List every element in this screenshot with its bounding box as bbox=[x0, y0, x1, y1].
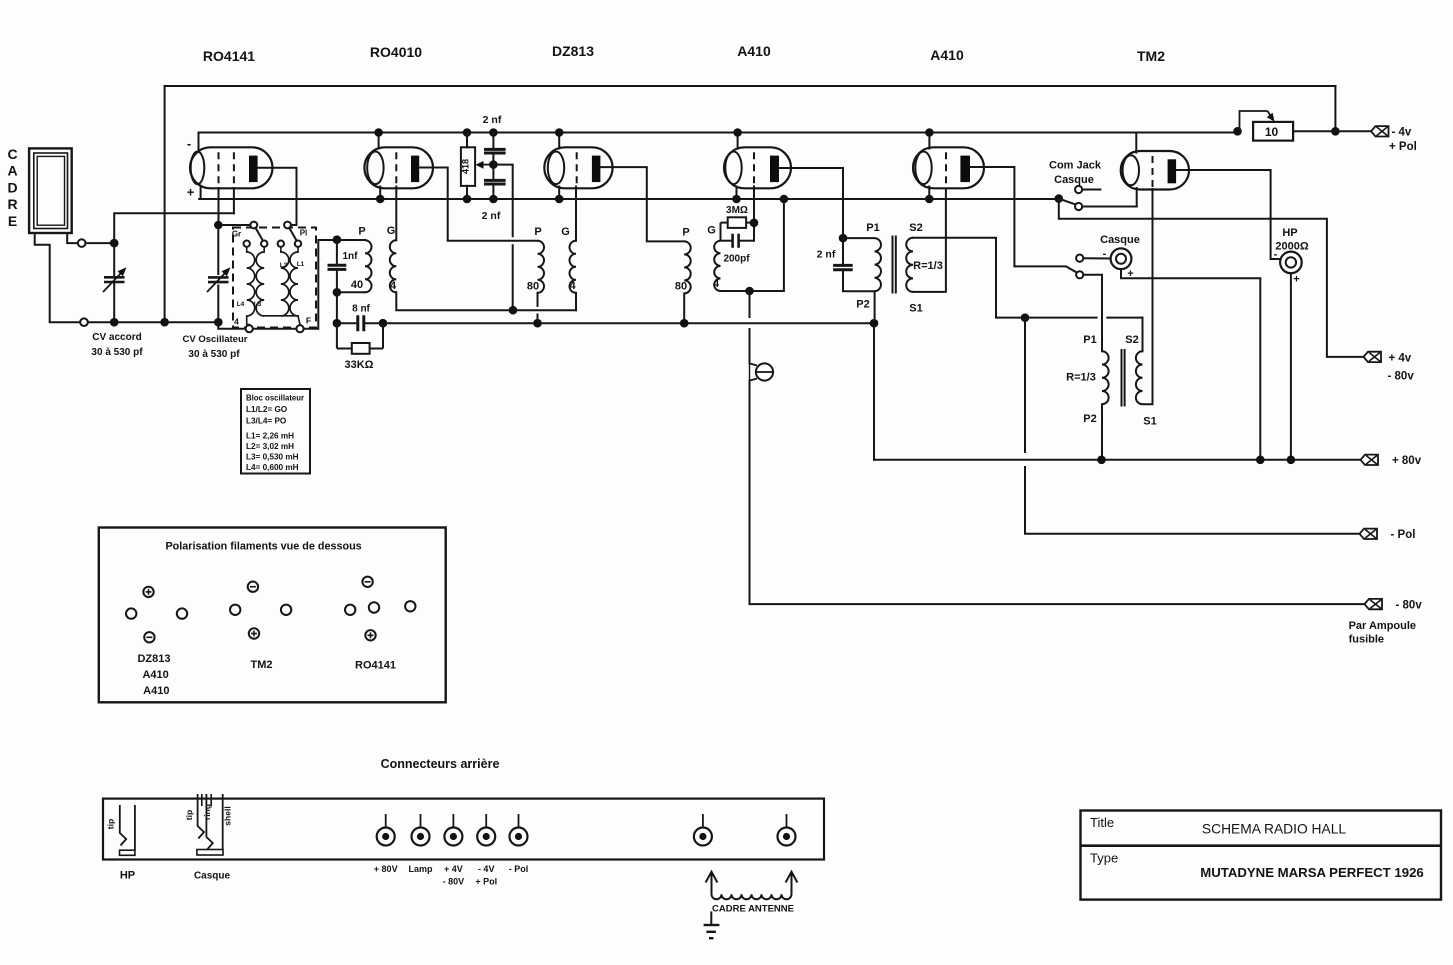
socket Lamp bbox=[412, 814, 430, 846]
coil tap contact L3 bbox=[261, 241, 267, 247]
svg-text:Title: Title bbox=[1090, 815, 1114, 830]
wire: com jack lower contact to TM2 filament bbox=[1082, 206, 1137, 208]
tube A410 second: filament bbox=[915, 152, 931, 185]
capacitor 2nf upper bbox=[484, 149, 506, 153]
label T3 value 80 bbox=[675, 281, 687, 293]
tube A410 second: grid 1 bbox=[945, 152, 947, 186]
svg-text:SCHEMA RADIO HALL: SCHEMA RADIO HALL bbox=[1202, 822, 1346, 837]
label socket Lamp bbox=[408, 864, 433, 874]
label 2nf upper bbox=[483, 114, 502, 126]
tube RO4010: anode bbox=[411, 156, 419, 183]
switch blade Pl to L1 tap bbox=[289, 228, 296, 241]
junction: T3 G bottom branch to fuse lamp bbox=[745, 287, 754, 296]
label osc terminal 4 bbox=[234, 317, 239, 327]
inductor L4 bbox=[247, 252, 255, 316]
svg-text:L1= 2,26 mH: L1= 2,26 mH bbox=[246, 432, 294, 441]
label CV accord bbox=[91, 332, 143, 358]
capacitor 200pf grid bbox=[721, 223, 755, 248]
label casque plus bbox=[1127, 268, 1133, 280]
junction: DZ813 bottom on filament+ bus bbox=[555, 195, 564, 204]
wire: com jack upper contact stub bbox=[1082, 189, 1100, 191]
triode/tube TM2: envelope bbox=[1121, 151, 1189, 190]
wire: T4 S2 to casque jack line bbox=[913, 238, 1097, 318]
wire: 418 bottom lead bbox=[466, 186, 468, 199]
svg-text:30 à 530 pf: 30 à 530 pf bbox=[91, 347, 143, 358]
label -Pol bbox=[1391, 529, 1416, 541]
svg-text:Bloc oscillateur: Bloc oscillateur bbox=[246, 394, 304, 403]
junction: A410-2 top on filament- bus bbox=[925, 128, 934, 137]
wire: DZ813 filament+ lead bbox=[558, 187, 560, 200]
svg-text:Casque: Casque bbox=[1100, 234, 1140, 246]
svg-text:R=1/3: R=1/3 bbox=[1066, 372, 1096, 384]
tube DZ813: filament bbox=[548, 152, 564, 185]
wire: T5 P2 to +80v rail bbox=[1101, 404, 1103, 460]
tube A410 first: filament bbox=[725, 152, 741, 185]
label HP plus bbox=[1293, 274, 1299, 286]
label -4v bbox=[1392, 127, 1412, 139]
junction: T2 primary on HT bus bbox=[533, 319, 542, 328]
svg-text:4: 4 bbox=[713, 278, 720, 290]
label L1 bbox=[297, 261, 305, 268]
svg-text:418: 418 bbox=[460, 159, 470, 174]
svg-text:30 à 530 pf: 30 à 530 pf bbox=[188, 349, 240, 360]
junction: 2nf top on filament- bus bbox=[489, 128, 498, 137]
connector: cadre terminal upper bbox=[78, 239, 86, 247]
svg-text:A410: A410 bbox=[142, 669, 168, 681]
resistor 418 bbox=[460, 147, 475, 186]
triode/tube DZ813: envelope bbox=[544, 147, 612, 188]
svg-text:- 80V: - 80V bbox=[443, 877, 465, 887]
triode/tube RO4141: envelope bbox=[190, 147, 273, 188]
label T5 S2 bbox=[1125, 334, 1138, 346]
wire: lamp branch upper bbox=[749, 291, 751, 317]
cadre antenne sketch bbox=[706, 872, 798, 900]
label T1 value 4 bbox=[390, 280, 397, 292]
label T4 S1 bbox=[909, 303, 922, 315]
svg-text:F: F bbox=[306, 316, 311, 326]
svg-text:-: - bbox=[1274, 249, 1278, 261]
wire: -Pol drop upper bbox=[1024, 318, 1026, 452]
wire: +80v rail bbox=[874, 459, 1360, 461]
wire: L4 stem bbox=[246, 247, 248, 252]
label tube V2 RO4010 bbox=[370, 44, 422, 60]
label 200pf bbox=[723, 254, 750, 265]
wire: TM2 filament- lead bbox=[1135, 133, 1137, 153]
label +Pol bbox=[1389, 141, 1417, 153]
wire: L1 to terminal F bbox=[298, 316, 300, 325]
coil tap contact L2 bbox=[278, 241, 284, 247]
socket +80V bbox=[377, 814, 395, 846]
junction: CV accord top node bbox=[110, 239, 119, 248]
transformer T5 core bbox=[1122, 349, 1125, 407]
svg-text:Casque: Casque bbox=[194, 871, 231, 882]
tube DZ813: grid 1 bbox=[576, 152, 578, 186]
wire: RO4141 filament+ lead bbox=[200, 187, 202, 200]
transformer T3 primary winding P bbox=[684, 241, 691, 293]
svg-text:D: D bbox=[7, 179, 17, 195]
label Type bbox=[1090, 851, 1118, 866]
label RO4141 plus bbox=[187, 185, 195, 200]
label CV oscillateur bbox=[183, 334, 248, 360]
junction: T4 primary top node bbox=[839, 234, 848, 243]
wire: HT bus down to +80v rail bbox=[873, 323, 875, 460]
tube RO4010: grid 1 bbox=[395, 152, 397, 186]
junction: resistor 418 bottom on filament+ bus bbox=[463, 195, 472, 204]
wire: T5 S1 to TM2 grid bbox=[1143, 189, 1153, 404]
label T3 value 4 bbox=[713, 278, 720, 290]
wire: -80v line bbox=[750, 381, 1365, 604]
label HP 2000 ohm bbox=[1275, 241, 1308, 253]
wire: rheostat output bbox=[1293, 130, 1335, 132]
junction: 8nf right node on HT bus bbox=[379, 319, 388, 328]
label T5 ratio bbox=[1066, 372, 1096, 384]
wire: T1 G bottom to grid-return bus bbox=[396, 292, 576, 310]
svg-text:S1: S1 bbox=[909, 303, 922, 315]
label 1nf bbox=[343, 251, 359, 262]
junction: filament+ bus at Com Jack bbox=[1055, 194, 1064, 203]
junction: grid leak node bbox=[750, 219, 759, 228]
svg-text:CADRE ANTENNE: CADRE ANTENNE bbox=[712, 904, 794, 915]
wire: node down to 8nf node bbox=[336, 292, 338, 323]
label Title bbox=[1090, 815, 1114, 830]
svg-text:DZ813: DZ813 bbox=[552, 43, 594, 59]
label L4 bbox=[237, 301, 245, 308]
svg-text:4: 4 bbox=[234, 317, 239, 327]
tube DZ813: anode bbox=[592, 156, 601, 183]
svg-text:1nf: 1nf bbox=[343, 251, 359, 262]
junction: grid-return node bbox=[509, 306, 518, 315]
wire: filament+ tie at RO4141 bbox=[199, 198, 234, 200]
svg-text:E: E bbox=[8, 213, 17, 229]
rear panel outline bbox=[103, 799, 824, 860]
wire: lamp branch crossing HT bus bbox=[749, 329, 751, 363]
svg-text:+ 4V: + 4V bbox=[444, 864, 463, 874]
svg-text:40: 40 bbox=[351, 279, 363, 291]
wire: CV oscillateur branch bbox=[217, 225, 219, 322]
svg-text:Polarisation filaments vue de: Polarisation filaments vue de dessous bbox=[165, 541, 361, 553]
svg-text:Gr: Gr bbox=[232, 230, 241, 239]
label socket -4V +Pol bbox=[475, 864, 497, 887]
junction: T3 primary on HT bus bbox=[680, 319, 689, 328]
wire: L3 stem bbox=[263, 247, 265, 252]
wire: RO4141 anode to Pl contact bbox=[258, 168, 297, 225]
label T5 S1 bbox=[1143, 416, 1156, 428]
terminal -4v +Pol bbox=[1371, 126, 1389, 136]
transformer T3 secondary winding G bbox=[714, 241, 720, 291]
label 2nf lower bbox=[482, 210, 501, 222]
tap arrow to resistor 418 bbox=[475, 161, 493, 169]
wire: T3 G bottom to filament+ bus bbox=[721, 199, 784, 291]
svg-text:3MΩ: 3MΩ bbox=[726, 205, 748, 216]
tube A410 first: grid 1 bbox=[753, 152, 755, 186]
wire: node to T4 P1 bbox=[843, 237, 875, 239]
label HP rear bbox=[120, 870, 135, 882]
label CADRE ANTENNE bbox=[712, 904, 794, 915]
svg-text:CV Oscillateur: CV Oscillateur bbox=[183, 334, 248, 345]
terminal -80v bbox=[1365, 599, 1383, 609]
label Connecteurs arriere bbox=[381, 757, 500, 771]
label 8nf bbox=[352, 304, 370, 315]
svg-text:DZ813: DZ813 bbox=[137, 653, 170, 665]
capacitor 1nf bbox=[328, 240, 347, 293]
wire: cadre terminal to CV accord top bbox=[86, 242, 115, 244]
switch contact com jack lower bbox=[1075, 203, 1082, 210]
svg-text:- 4V: - 4V bbox=[478, 864, 495, 874]
svg-text:R: R bbox=[7, 196, 17, 212]
svg-text:A410: A410 bbox=[930, 47, 964, 63]
svg-text:P2: P2 bbox=[856, 299, 869, 311]
label tube V3 DZ813 bbox=[552, 43, 594, 59]
wire: 2nf junction lead bbox=[492, 153, 494, 164]
pin diagram TM2 bbox=[230, 582, 291, 672]
wire: A410-2 filament+ lead bbox=[928, 187, 930, 200]
junction: RO4010 top on filament- bus bbox=[374, 128, 383, 137]
junction: T4 P2 on HT bus / feed to +80v rail bbox=[870, 319, 879, 328]
variable capacitor CV accord 30-530pf bbox=[103, 243, 127, 322]
label Com Jack Casque bbox=[1049, 160, 1102, 187]
wire: contact to T5 P1 bbox=[1083, 275, 1102, 352]
inductor L2 bbox=[281, 252, 289, 316]
svg-text:-: - bbox=[1103, 248, 1107, 260]
wire: grid node to Gr contact bbox=[223, 224, 250, 226]
svg-text:+ Pol: + Pol bbox=[1389, 141, 1417, 153]
label T4 S2 bbox=[909, 222, 922, 234]
wire: A410-1 grid lead down bbox=[753, 187, 755, 241]
wire: filament positive bus bbox=[201, 198, 1059, 200]
junction: 8nf left node bbox=[333, 319, 342, 328]
junction: return bus on ground bus bbox=[160, 318, 169, 327]
ground symbol bbox=[704, 911, 720, 938]
tube TM2: grid 1 bbox=[1152, 156, 1154, 188]
wire: L3-L1 bottom link bbox=[264, 315, 298, 317]
wire: to -4v terminal bbox=[1335, 130, 1370, 132]
junction: A410-1 top on filament- bus bbox=[733, 128, 742, 137]
switch contact Gr bbox=[250, 222, 257, 229]
svg-text:- 80v: - 80v bbox=[1388, 371, 1415, 383]
wire: lamp stub bbox=[749, 363, 751, 380]
label Pl bbox=[300, 229, 308, 238]
transformer T1 primary winding P bbox=[365, 240, 372, 292]
jack Casque (headphone output) bbox=[1111, 248, 1132, 269]
tube RO4141: filament bbox=[191, 152, 205, 185]
wire: tap node down (upper) bbox=[493, 165, 512, 237]
svg-text:+: + bbox=[187, 185, 195, 200]
switch contact com jack upper bbox=[1075, 186, 1082, 193]
transformer T4 primary P1-P2 bbox=[875, 238, 881, 291]
svg-text:Type: Type bbox=[1090, 851, 1118, 866]
svg-text:L2= 3,02 mH: L2= 3,02 mH bbox=[246, 442, 294, 451]
svg-text:- 4v: - 4v bbox=[1392, 127, 1412, 139]
label T2 value 4 bbox=[569, 280, 576, 292]
wire: casque + return to +80v rail bbox=[1121, 269, 1260, 460]
label tube V4 A410 bbox=[737, 43, 771, 59]
wire: RO4141 grid2 lead down bbox=[233, 188, 235, 213]
capacitor 2nf lower bbox=[484, 180, 506, 184]
resistor 33K bbox=[337, 323, 383, 354]
svg-text:+ 80v: + 80v bbox=[1392, 455, 1422, 467]
label L3 bbox=[254, 301, 262, 308]
svg-text:Com Jack: Com Jack bbox=[1049, 160, 1102, 172]
svg-text:P1: P1 bbox=[1083, 334, 1096, 346]
coil tap contact L1 bbox=[295, 241, 301, 247]
transformer T4 secondary S2-S1 bbox=[906, 238, 913, 292]
wire: ground bus under oscillator to F riser bbox=[218, 240, 337, 329]
tube A410 second: anode bbox=[960, 156, 970, 183]
svg-text:4: 4 bbox=[569, 280, 576, 292]
wire: +4v -80v line to terminal bbox=[1059, 199, 1364, 357]
svg-text:A410: A410 bbox=[737, 43, 771, 59]
wire: tuning ground bus bbox=[88, 321, 218, 323]
wire: T4 S1 to A410-2 grid bbox=[913, 189, 946, 292]
tube RO4141: grid 2 bbox=[233, 152, 235, 186]
label HP bbox=[1282, 227, 1297, 239]
wire: L2 stem bbox=[280, 247, 282, 252]
label socket +4V -80V bbox=[443, 864, 465, 887]
jack socket Casque (rear) bbox=[184, 794, 233, 855]
label T3 G bbox=[707, 225, 716, 237]
wire: T2 primary bottom (upper) bbox=[537, 293, 539, 306]
label T4 P1 bbox=[866, 222, 879, 234]
transformer T5 primary P1-P2 bbox=[1102, 351, 1109, 404]
wire: RO4141 filament- lead bbox=[198, 133, 200, 150]
label SCHEMA RADIO HALL bbox=[1202, 822, 1346, 837]
label socket +80V bbox=[374, 864, 398, 874]
label RO4141 minus bbox=[187, 136, 191, 151]
connector: oscillator terminal 4 bbox=[246, 325, 253, 332]
wire: RO4010 filament+ lead bbox=[379, 187, 381, 200]
info box Bloc oscillateur bbox=[241, 389, 310, 474]
wire: cadre upper lead bbox=[67, 233, 78, 243]
svg-text:C: C bbox=[7, 146, 17, 162]
junction: resistor 418 top on filament- bus bbox=[463, 128, 472, 137]
svg-text:P: P bbox=[682, 227, 689, 239]
tube RO4141: anode bbox=[249, 156, 258, 183]
svg-text:8 nf: 8 nf bbox=[352, 304, 370, 315]
label +4v bbox=[1389, 352, 1412, 364]
svg-text:RO4010: RO4010 bbox=[370, 44, 422, 60]
svg-text:- 80v: - 80v bbox=[1396, 600, 1423, 612]
wire: tap node down (lower, hops anode line) bbox=[512, 245, 514, 310]
wire: top return bus (-4v rail) bbox=[165, 85, 1336, 87]
wire: RO4010 anode to T2 primary bbox=[419, 168, 537, 241]
svg-text:L1: L1 bbox=[297, 261, 305, 268]
label T1 P bbox=[358, 226, 365, 238]
wire: T2 primary bottom to HT bus (hops grid-return) bbox=[537, 315, 539, 324]
junction: T1 primary top node bbox=[333, 235, 342, 244]
wire: A410-2 anode to casque switch blade bbox=[970, 167, 1076, 272]
socket cadre antenne right bbox=[778, 814, 796, 846]
wire: RO4010 grid lead to T1 G top bbox=[395, 187, 397, 241]
svg-text:R=1/3: R=1/3 bbox=[913, 260, 943, 272]
wire: contact to casque jack tip bbox=[1083, 257, 1110, 259]
svg-text:Connecteurs arrière: Connecteurs arrière bbox=[381, 757, 500, 771]
svg-text:+: + bbox=[1293, 274, 1299, 286]
svg-text:+ 80V: + 80V bbox=[374, 864, 398, 874]
svg-text:L3= 0,530 mH: L3= 0,530 mH bbox=[246, 453, 299, 462]
svg-text:TM2: TM2 bbox=[251, 659, 273, 671]
socket +4V -80V bbox=[444, 814, 462, 846]
switch contact casque upper bbox=[1076, 255, 1083, 262]
svg-text:2 nf: 2 nf bbox=[482, 210, 501, 222]
junction: rheostat output node bbox=[1331, 127, 1340, 136]
label tube V1 RO4141 bbox=[203, 48, 255, 64]
svg-text:G: G bbox=[387, 225, 396, 237]
wire: DZ813 filament- lead bbox=[558, 133, 560, 149]
label T3 P bbox=[682, 227, 689, 239]
svg-text:33KΩ: 33KΩ bbox=[345, 359, 374, 371]
svg-text:G: G bbox=[707, 225, 716, 237]
label T2 P bbox=[534, 226, 541, 238]
label tube V5 A410 bbox=[930, 47, 964, 63]
jack HP 2000 ohm (loudspeaker) bbox=[1280, 252, 1302, 274]
transformer T1 secondary winding G bbox=[390, 240, 397, 292]
tube TM2: filament bbox=[1123, 155, 1139, 185]
socket cadre antenne left bbox=[694, 814, 712, 846]
label T4 ratio bbox=[913, 260, 943, 272]
pin diagram RO4141 bbox=[345, 577, 415, 672]
label 33KOhm bbox=[345, 359, 374, 371]
wire: A410-1 filament+ lead bbox=[736, 187, 738, 200]
wire: A410-1 filament- lead bbox=[737, 133, 739, 149]
label MUTADYNE MARSA PERFECT 1926 bbox=[1200, 865, 1423, 880]
label T5 P2 bbox=[1083, 413, 1096, 425]
wire: T2 G bottom to grid-return bus bbox=[575, 293, 577, 310]
switch blade Gr to L3 tap bbox=[256, 228, 263, 241]
variable capacitor CV oscillateur 30-530pf bbox=[207, 267, 231, 292]
junction: rheostat input node bbox=[1233, 127, 1242, 136]
wire: L4 to terminal 4 bbox=[247, 316, 250, 325]
switch blade com jack bbox=[1059, 199, 1075, 205]
junction: DZ813 top on filament- bus bbox=[555, 128, 564, 137]
svg-text:+ Pol: + Pol bbox=[475, 877, 497, 887]
label 3MOhm bbox=[726, 205, 748, 216]
tube TM2: anode bbox=[1168, 159, 1177, 183]
junction: 418 tap node bbox=[489, 160, 498, 169]
junction: RO4010 bottom on filament+ bus bbox=[376, 195, 385, 204]
switch contact casque lower bbox=[1076, 271, 1083, 278]
tube RO4010: filament bbox=[367, 152, 383, 185]
wire: TM2 anode to HP jack bbox=[1176, 170, 1280, 259]
svg-text:A: A bbox=[7, 163, 17, 179]
svg-text:Pl: Pl bbox=[300, 229, 308, 238]
label T2 G bbox=[561, 226, 570, 238]
wire: DZ813 grid lead to T2 G top bbox=[575, 187, 577, 241]
label T2 value 80 bbox=[527, 281, 539, 293]
wire: DZ813 anode to T3 primary bbox=[600, 167, 684, 241]
wire: HT+ distribution bus bbox=[383, 322, 874, 324]
wire: cadre lower lead bbox=[35, 233, 80, 322]
wire: upper 2nf top lead bbox=[492, 133, 494, 150]
junction: A410-2 bottom on filament+ bus bbox=[925, 195, 934, 204]
info box Polarisation filaments vue de dessous bbox=[99, 528, 446, 703]
wire: filament negative bus bbox=[199, 132, 1238, 134]
loop antenna CADRE (frame) bbox=[29, 148, 72, 233]
svg-text:HP: HP bbox=[1282, 227, 1297, 239]
terminal +80v bbox=[1361, 455, 1379, 465]
svg-text:shell: shell bbox=[223, 806, 233, 825]
svg-text:Lamp: Lamp bbox=[408, 864, 433, 874]
svg-text:P2: P2 bbox=[1083, 413, 1096, 425]
jack socket HP (rear) bbox=[106, 805, 135, 855]
wire: A410-1 anode to T4 primary node bbox=[779, 168, 843, 238]
label Gr bbox=[232, 230, 241, 239]
tube A410 first: anode bbox=[770, 156, 779, 183]
capacitor 2nf across T4 primary bbox=[833, 238, 853, 291]
junction: S2 line branch to -Pol bbox=[1021, 313, 1030, 322]
rheostat 10 (filament) bbox=[1240, 111, 1294, 141]
wire: 418 top lead bbox=[466, 133, 468, 148]
label polarisation title bbox=[165, 541, 361, 553]
